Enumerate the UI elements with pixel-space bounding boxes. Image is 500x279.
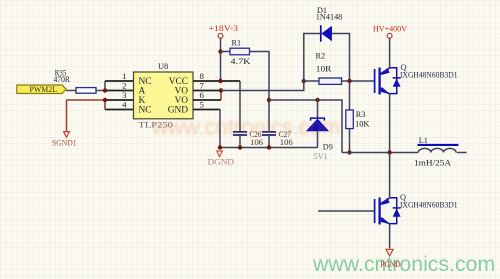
svg-text:www.cntronics.com: www.cntronics.com [151,115,340,140]
svg-text:R2: R2 [316,52,326,61]
wire R2 to gate [342,80,375,82]
svg-text:10R: 10R [316,64,332,73]
svg-text:www.cntronics.com: www.cntronics.com [312,252,495,276]
wire pin4 [105,109,134,111]
svg-text:4: 4 [122,99,127,109]
wire pin5 GND drop [193,109,220,111]
svg-text:PWM2L: PWM2L [30,85,58,94]
svg-text:A: A [139,87,146,97]
wire pin8 drop to C26 [239,81,241,132]
ground DGND [208,151,235,167]
wire SGND horizontal (red) [67,99,106,101]
svg-text:4.7K: 4.7K [231,57,251,66]
power HV+400V [373,24,407,38]
wire pin1-pin2 vertical [104,81,106,91]
wire pin8 [193,80,240,82]
svg-text:HV+400V: HV+400V [373,24,407,33]
capacitor C27 [262,100,293,148]
resistor R1 [221,39,251,66]
wire Q2 collector from mid rail [389,153,391,198]
wire +18V vertical to pin8 [220,39,222,82]
inductor L1 [414,136,467,168]
wire pin3-pin4 vertical [104,100,106,110]
wire pin2 [105,90,134,92]
ground SGND1 [52,132,77,148]
wire DGND rail [220,147,318,149]
port PWM2L [17,85,66,94]
svg-text:2: 2 [122,80,126,90]
power +18V-3 [209,24,239,38]
node VO junction [219,88,223,92]
svg-text:5V1: 5V1 [314,152,328,161]
svg-text:VO: VO [174,87,188,97]
wire HV to collector [389,39,391,69]
transistor Q1 IXGH48N60B3D1 (top IGBT) [375,63,458,95]
wire pin7-pin6 jog (red) [220,91,222,101]
svg-text:NC: NC [139,77,152,87]
svg-text:1N4148: 1N4148 [316,13,343,22]
node R3 bottom junction [347,150,351,154]
op-amp U8 TLP250 optocoupler [134,62,194,130]
node D9 top junction [315,98,319,102]
svg-text:VCC: VCC [169,77,188,87]
node C27 ground junction [267,145,271,149]
svg-text:R3: R3 [356,110,366,119]
resistor R2 [304,52,342,85]
node VCC pin8 junction [218,79,222,83]
wire Q2 emitter to PGND [389,224,391,249]
svg-text:8: 8 [200,71,205,81]
svg-text:3: 3 [122,90,127,100]
wire Q2 gate lead [318,210,375,212]
transistor Q2 IXGH48N60B3D1 (bottom IGBT) [375,193,458,225]
svg-text:1: 1 [122,71,126,81]
resistor R35 [54,69,97,94]
svg-text:PGND: PGND [381,259,401,269]
wire PWM2L to R35 [66,90,76,92]
node mid rail junction [387,150,391,154]
wire R1 right, down to node row [250,52,270,101]
svg-text:VO: VO [174,96,188,106]
svg-text:SGND1: SGND1 [52,138,77,147]
wire node row to emitter drop [269,100,342,153]
svg-text:1mH/25A: 1mH/25A [414,159,451,168]
wire Q1 emitter to mid rail [389,94,391,153]
svg-text:10K: 10K [355,120,370,129]
diode D1 1N4148 [316,6,343,42]
pin numbers U8 [122,71,204,110]
svg-text:K: K [139,96,146,106]
capacitor C26 [233,130,263,148]
resistor R3 [346,81,370,153]
wire R35 to pin2 node [96,90,105,92]
svg-text:+18V-3: +18V-3 [209,24,239,33]
node pin3 junction [103,98,107,102]
svg-text:470R: 470R [54,75,71,84]
ground PGND [381,249,401,268]
wire D1 branch [304,34,350,82]
svg-text:R1: R1 [232,39,242,48]
svg-text:L1: L1 [419,136,428,145]
pin names U8 [139,77,189,116]
node pin2 junction [103,88,107,92]
node gate junction [347,79,351,83]
wire SGND vertical (red) [66,100,68,132]
node VO-R2-D1 junction [302,79,306,83]
svg-text:U8: U8 [158,62,168,71]
wire mid rail [342,152,418,154]
diode D9 zener 5V1 [306,100,333,161]
svg-text:NC: NC [139,106,152,116]
wire pin1 [105,80,134,82]
svg-text:IXGH48N60B3D1: IXGH48N60B3D1 [400,70,458,79]
svg-text:DGND: DGND [208,158,235,167]
wire pin6 [193,99,221,101]
wire pin3 [105,99,134,101]
node DGND junction [218,145,222,149]
wire pin7 [193,90,221,92]
node R1-C27 junction [267,98,271,102]
node C26 ground junction [238,145,242,149]
wire VO output [221,81,304,91]
svg-text:D9: D9 [323,143,333,152]
svg-text:IXGH48N60B3D1: IXGH48N60B3D1 [400,200,458,209]
node R1 tap junction [218,49,222,53]
